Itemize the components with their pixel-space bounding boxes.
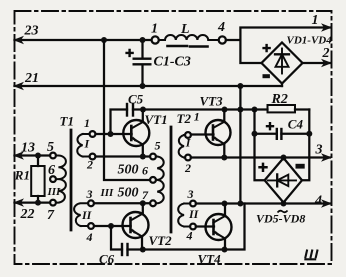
wire emitter row T1:2 to T2:5 — [96, 155, 150, 157]
wire 3-rail — [191, 156, 330, 158]
T1 winding I — [77, 134, 89, 157]
arrow right pin 3 — [321, 153, 332, 161]
capacitor C4 — [255, 133, 277, 135]
T1 terminal 7 — [50, 200, 56, 206]
arrow right pin 1 — [321, 23, 332, 31]
svg-text:2: 2 — [86, 158, 93, 172]
T2 terminal 3 — [190, 201, 196, 207]
svg-text:VT4: VT4 — [198, 252, 222, 267]
plus bridge2 — [258, 163, 267, 172]
svg-text:R2: R2 — [271, 92, 288, 107]
wire node4 to bridge riser — [226, 28, 330, 64]
svg-text:22: 22 — [20, 207, 35, 222]
svg-text:C1-C3: C1-C3 — [154, 55, 191, 70]
svg-text:6: 6 — [48, 163, 55, 178]
svg-text:R1: R1 — [14, 168, 30, 183]
T2 terminal 4 — [190, 224, 196, 230]
wire tap7 row T1:3 to T2:7 — [94, 202, 150, 204]
svg-text:VD1-VD4: VD1-VD4 — [287, 35, 333, 47]
svg-text:2: 2 — [184, 161, 191, 175]
T2 terminal 1 — [185, 132, 191, 138]
wire 13-line — [15, 154, 51, 156]
resistor R1 — [37, 156, 39, 167]
label Sh — [304, 250, 317, 260]
arrow left pin 13 — [13, 151, 24, 159]
svg-text:7: 7 — [142, 188, 149, 202]
svg-text:1: 1 — [84, 116, 90, 130]
wire 2-rail from bridge right vertex — [303, 62, 331, 64]
inductor L — [159, 35, 219, 40]
arrow left pin 22 — [13, 198, 24, 206]
plus bridge1 — [262, 44, 270, 52]
minus bridge2 — [296, 164, 305, 169]
arrow left pin 21 — [13, 82, 24, 90]
wire R2/C4 right vertical — [302, 110, 309, 181]
wire R2/C4 left vertical — [255, 110, 265, 181]
svg-text:500: 500 — [118, 186, 139, 201]
transformer T2 core — [170, 127, 173, 232]
svg-text:C4: C4 — [288, 117, 304, 132]
T1 terminal 6 — [50, 176, 56, 182]
wire vertical 21 to 4-rail — [239, 86, 241, 204]
svg-text:4: 4 — [314, 194, 322, 209]
svg-text:1: 1 — [151, 22, 158, 37]
svg-text:500: 500 — [118, 163, 139, 178]
capacitor C5 — [111, 110, 128, 135]
svg-text:23: 23 — [24, 24, 39, 39]
T1 terminal 1 — [90, 131, 96, 137]
wire VT4 base — [196, 225, 214, 227]
wire 21-line — [15, 85, 283, 87]
transistor VT3 — [206, 120, 231, 145]
svg-text:II: II — [188, 207, 200, 221]
svg-text:T2: T2 — [177, 111, 192, 126]
T1 winding III — [56, 156, 66, 203]
wire bridge1 bottom stub — [281, 84, 283, 87]
T1 terminal 5 — [50, 153, 56, 159]
wire emitter bottom row — [128, 204, 245, 250]
svg-text:VD5-VD8: VD5-VD8 — [256, 212, 305, 226]
svg-text:6: 6 — [142, 164, 148, 178]
wire 23-line — [15, 39, 152, 41]
svg-text:C6: C6 — [99, 252, 115, 267]
transistor VT2 — [123, 212, 149, 238]
node 4 terminal circle — [219, 36, 226, 43]
svg-text:4: 4 — [86, 230, 93, 244]
T2 terminal 2 — [185, 155, 191, 161]
resistor R2 — [268, 105, 296, 112]
T2 winding I — [179, 135, 185, 158]
svg-text:III: III — [100, 187, 115, 199]
capacitor C1-C3 — [141, 40, 143, 58]
T1 terminal 3 — [88, 200, 94, 206]
plus C4 — [266, 122, 274, 130]
node 1 terminal circle — [152, 36, 159, 43]
arrow right pin 4 — [321, 199, 332, 207]
svg-text:I: I — [84, 137, 91, 151]
arrow right pin 2 — [321, 59, 332, 67]
svg-text:3: 3 — [187, 187, 194, 201]
T2 winding II — [178, 204, 190, 227]
transistor VT4 — [206, 214, 232, 240]
T1 terminal 2 — [90, 154, 96, 160]
arrow left pin 23 — [13, 36, 24, 44]
svg-text:III: III — [47, 186, 62, 198]
svg-text:13: 13 — [21, 141, 35, 156]
wire VT2 base from T1 terminal 4 — [94, 225, 131, 227]
svg-text:1: 1 — [312, 13, 319, 28]
svg-text:2: 2 — [322, 46, 330, 61]
capacitor C6 — [111, 226, 122, 250]
T2 winding III (500+500) — [150, 157, 163, 204]
wire collector rail y109 — [143, 108, 268, 110]
svg-text:5: 5 — [155, 139, 161, 153]
wire 4-rail — [196, 202, 330, 204]
T1 terminal 4 — [88, 223, 94, 229]
svg-text:4: 4 — [186, 229, 193, 243]
svg-text:5: 5 — [47, 140, 54, 155]
T2 terminal 6 — [150, 177, 156, 183]
svg-text:C5: C5 — [128, 92, 144, 107]
T2 terminal 5 — [150, 154, 156, 160]
wire VT1 base from T1 terminal 1 — [96, 133, 132, 135]
T1 winding II — [74, 203, 88, 226]
svg-text:II: II — [81, 208, 93, 222]
T2 terminal 7 — [150, 200, 156, 206]
svg-text:3: 3 — [315, 143, 323, 158]
svg-text:1: 1 — [194, 110, 200, 124]
diode bridge VD5-VD8 — [265, 158, 302, 203]
wire 22-line — [15, 201, 51, 203]
svg-text:4: 4 — [217, 20, 225, 35]
wire VT3 base — [191, 133, 214, 135]
transistor VT1 — [123, 120, 149, 146]
wire VT2 collector vertical — [142, 203, 144, 213]
svg-text:T1: T1 — [60, 114, 74, 129]
svg-text:VT2: VT2 — [149, 233, 173, 248]
svg-text:7: 7 — [47, 208, 55, 223]
plus C1-C3 — [125, 49, 133, 57]
svg-text:21: 21 — [24, 71, 39, 86]
svg-text:VT1: VT1 — [145, 112, 168, 127]
svg-text:3: 3 — [86, 187, 93, 201]
junction dots top area — [101, 37, 107, 43]
svg-text:L: L — [180, 22, 190, 37]
transformer T1 core — [70, 130, 73, 230]
diode bridge VD1-VD4 — [262, 43, 303, 84]
minus bridge1 — [263, 74, 270, 78]
svg-text:VT3: VT3 — [200, 94, 224, 109]
wire vertical 23-rail down to T2 center tap 6 — [104, 40, 150, 180]
